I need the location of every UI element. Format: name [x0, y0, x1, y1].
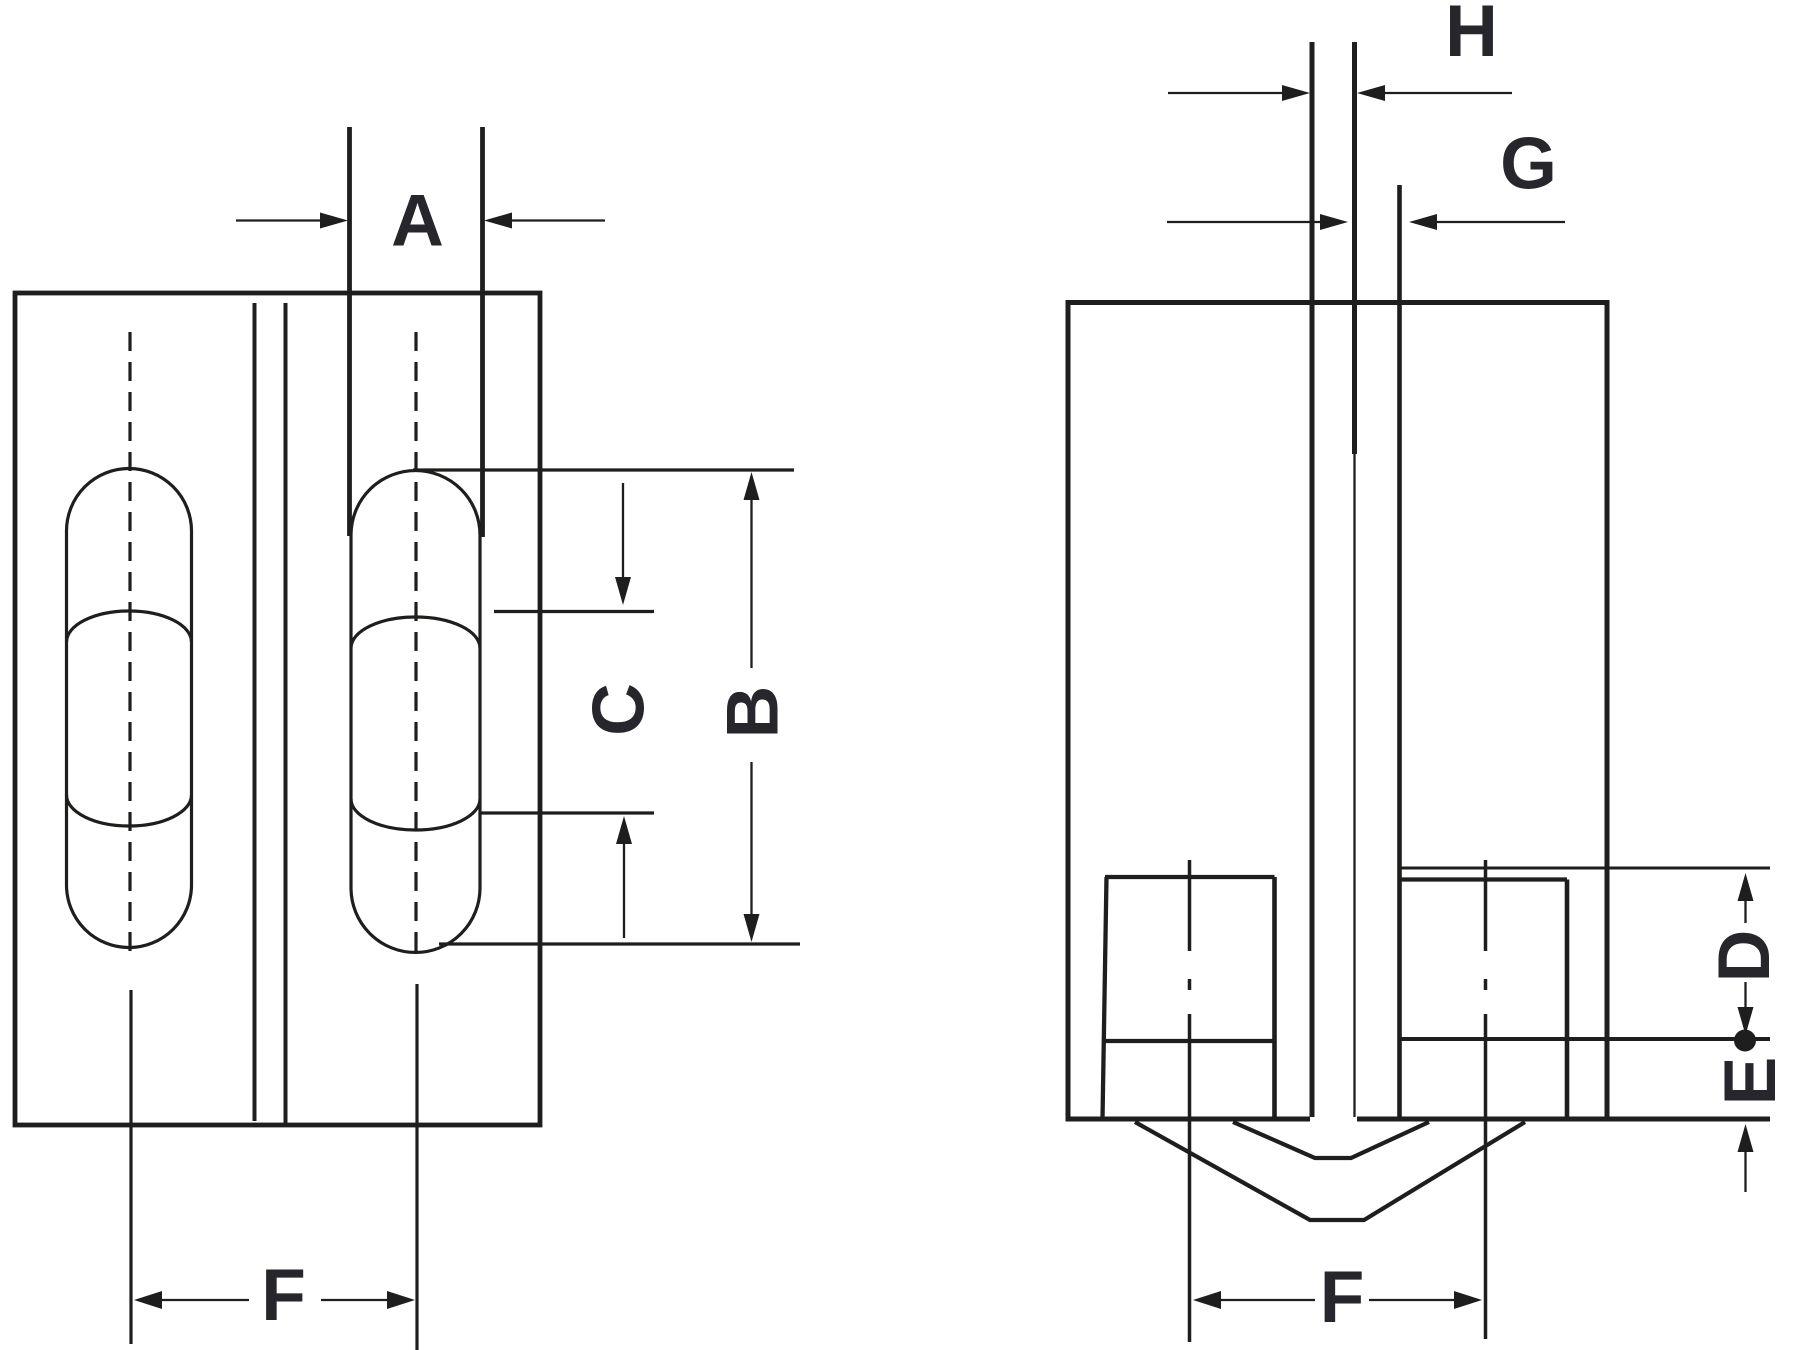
dim H left arrow	[1168, 85, 1310, 101]
dim F right view right arrow	[1369, 1291, 1482, 1309]
dim F left arrow	[134, 1291, 249, 1309]
dim D down arrow	[1738, 982, 1754, 1035]
svg-text:C: C	[579, 683, 660, 736]
svg-text:E: E	[1710, 1057, 1791, 1106]
dim C top reference line	[494, 610, 654, 613]
dim E up arrow	[1738, 1124, 1754, 1192]
dim B bottom reference line	[439, 942, 800, 945]
svg-text:H: H	[1445, 0, 1498, 72]
dim F left extension line slot2	[415, 984, 418, 1350]
chamfer groove inner V	[1233, 1122, 1429, 1158]
dim F right arrow	[321, 1291, 415, 1309]
dim B up arrowhead	[744, 472, 760, 500]
slot 1 counterbore bottom arc	[67, 795, 192, 826]
slot 2 counterbore bottom arc	[351, 799, 480, 830]
right nut block top edge	[1400, 877, 1568, 881]
dim A extension line right	[480, 127, 485, 537]
left nut block left edge	[1103, 877, 1107, 1119]
left nut block top edge	[1105, 875, 1275, 879]
dim C down arrow	[615, 483, 631, 605]
center groove line left	[253, 303, 257, 1121]
dim B top reference line	[413, 468, 794, 471]
right nut block centerline	[1484, 860, 1488, 1339]
chamfer groove outer V	[1135, 1122, 1525, 1220]
dim E dot	[1734, 1030, 1756, 1052]
dim A extension line left	[347, 127, 352, 536]
dim G left arrow	[1167, 214, 1348, 230]
svg-text:F: F	[1320, 1257, 1365, 1338]
dim B down arrowhead	[744, 914, 760, 942]
svg-text:B: B	[713, 686, 794, 739]
right view bottom edge left segment	[1066, 1117, 1311, 1122]
left nut block right edge	[1272, 877, 1277, 1119]
left view outline	[15, 293, 540, 1125]
slot 1 counterbore top arc	[67, 611, 192, 642]
slot 2 counterbore top arc	[351, 617, 480, 648]
dim D top reference line	[1400, 867, 1771, 870]
slot edge right (dim G extension)	[1397, 185, 1402, 1117]
dim F left extension line slot1	[129, 990, 132, 1344]
dim G right arrow	[1409, 214, 1565, 230]
right nut block inner line extended as dim D/E reference	[1400, 1037, 1771, 1041]
slot edge middle upper thick (dim H/G extension)	[1352, 42, 1357, 454]
svg-text:D: D	[1704, 930, 1785, 983]
left nut block inner line	[1104, 1039, 1275, 1043]
dim C bottom reference line	[481, 811, 654, 814]
svg-text:F: F	[261, 1255, 306, 1336]
right view bottom edge right segment extended as dim E reference	[1357, 1117, 1770, 1122]
dim A right arrow	[484, 213, 605, 229]
slot 2 outline	[351, 471, 480, 953]
slot edge middle lower thin	[1353, 454, 1355, 1117]
slot 1 outline	[67, 469, 192, 948]
slot 2 centerline dashed	[414, 332, 417, 951]
center groove line right	[284, 303, 288, 1124]
slot 1 centerline dashed	[128, 332, 131, 951]
svg-text:A: A	[391, 181, 444, 262]
dim A left arrow	[236, 213, 348, 229]
left nut block centerline	[1188, 860, 1192, 1342]
dim H right arrow	[1357, 85, 1512, 101]
svg-text:G: G	[1500, 124, 1557, 205]
dim F right view left arrow	[1193, 1291, 1315, 1309]
right view outline top	[1068, 303, 1607, 1118]
dim D up arrow	[1738, 873, 1754, 923]
slot edge left (dim H extension)	[1310, 42, 1315, 1117]
dim B arrow shafts	[750, 500, 752, 914]
right nut block right edge	[1565, 880, 1570, 1120]
dim C up arrow	[616, 816, 632, 938]
